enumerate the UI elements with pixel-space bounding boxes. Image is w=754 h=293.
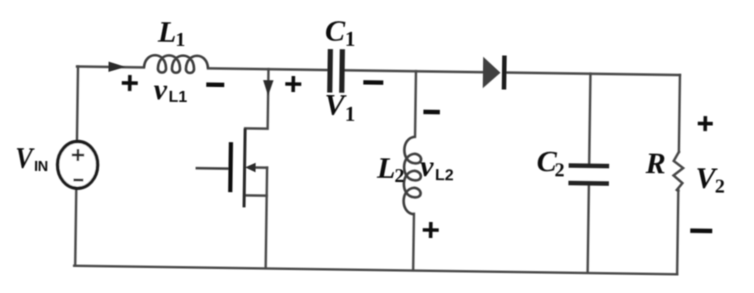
svg-text:2: 2 [715, 176, 725, 198]
svg-text:IN: IN [34, 159, 48, 175]
svg-text:V: V [15, 142, 36, 175]
svg-text:L2: L2 [435, 167, 454, 184]
svg-text:v: v [153, 73, 167, 106]
svg-text:C: C [325, 14, 346, 47]
svg-text:2: 2 [554, 159, 564, 181]
svg-text:1: 1 [175, 29, 185, 51]
svg-text:L1: L1 [168, 89, 187, 106]
svg-text:1: 1 [345, 27, 356, 51]
svg-text:L: L [376, 152, 396, 185]
svg-text:L: L [157, 15, 177, 48]
svg-text:v: v [420, 150, 434, 183]
svg-text:2: 2 [394, 165, 404, 187]
svg-text:1: 1 [345, 102, 356, 126]
svg-text:R: R [644, 147, 665, 180]
